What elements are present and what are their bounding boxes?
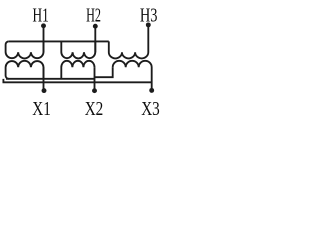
svg-text:X2: X2 bbox=[85, 97, 104, 120]
svg-text:X3: X3 bbox=[141, 97, 160, 120]
svg-text:H1: H1 bbox=[32, 4, 48, 26]
svg-text:H3: H3 bbox=[140, 3, 158, 26]
svg-text:X1: X1 bbox=[32, 97, 51, 120]
svg-text:H2: H2 bbox=[86, 3, 101, 26]
